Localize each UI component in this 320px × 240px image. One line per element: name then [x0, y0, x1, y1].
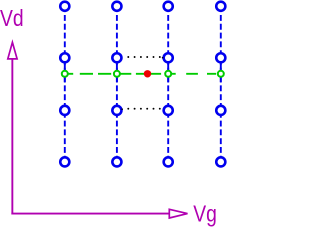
- node: blue grid point r1c3: [164, 2, 173, 11]
- axis Vg arrowhead: [169, 209, 187, 218]
- node: green interpolation point c3: [165, 71, 171, 77]
- node: blue grid point r2c2: [112, 53, 121, 62]
- wire: dashed blue column line 1: [64, 6, 66, 162]
- node: blue grid point r3c3: [164, 106, 173, 115]
- svg-text:Vg: Vg: [193, 202, 217, 227]
- node: blue grid point r3c4: [216, 106, 225, 115]
- node: green interpolation point c4: [218, 71, 224, 77]
- wire: dashed green row line segment col1-col2: [65, 73, 117, 75]
- wire: solid blue joint col1 at green row: [64, 63, 66, 83]
- node: green interpolation point c2: [114, 71, 120, 77]
- wire: upper dotted black line: [127, 56, 163, 58]
- node: blue grid point r2c4: [216, 53, 225, 62]
- axis Vd (vertical axis line): [11, 58, 13, 215]
- node: red target point: [144, 70, 151, 77]
- axis Vd arrowhead: [8, 42, 17, 59]
- node: blue grid point r4c4: [216, 157, 225, 166]
- node: blue grid point r4c3: [164, 157, 173, 166]
- node: blue grid point r4c1: [60, 157, 69, 166]
- wire: solid blue joint col3 at green row: [167, 63, 169, 83]
- svg-text:Vd: Vd: [0, 7, 24, 32]
- node: blue grid point r1c2: [112, 2, 121, 11]
- node: blue grid point r3c1: [60, 106, 69, 115]
- node: blue grid point r4c2: [112, 157, 121, 166]
- wire: lower dotted black line: [121, 108, 160, 110]
- node: blue grid point r1c4: [216, 2, 225, 11]
- node: blue grid point r3c2: [112, 106, 121, 115]
- wire: solid blue joint col2 at green row: [116, 63, 118, 83]
- wire: solid blue joint col4 at green row: [220, 63, 222, 83]
- wire: dashed blue column line 4: [220, 6, 222, 162]
- wire: dashed green row line segment col2-col3: [117, 73, 168, 75]
- axis Vg (horizontal axis line): [11, 213, 170, 215]
- node: blue grid point r2c3: [164, 53, 173, 62]
- wire: dashed green row line segment col3-col4: [168, 73, 221, 75]
- node: green interpolation point c1: [62, 71, 68, 77]
- node: blue grid point r1c1: [60, 2, 69, 11]
- wire: dashed blue column line 3: [167, 6, 169, 162]
- wire: dashed blue column line 2: [116, 6, 118, 162]
- node: blue grid point r2c1: [60, 53, 69, 62]
